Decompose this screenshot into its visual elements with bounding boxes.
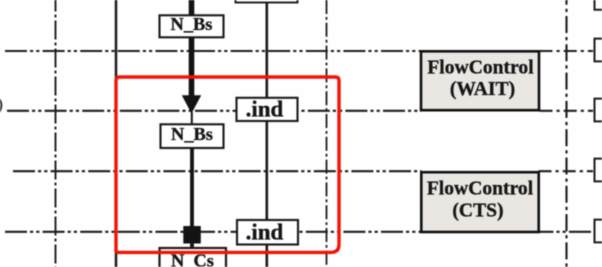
svg-text:(CTS): (CTS) (452, 200, 503, 221)
svg-text:FlowControl: FlowControl (427, 179, 534, 200)
right edge bracket (cut box) at y=170 (595, 159, 602, 182)
label box N_Bs (upper) (160, 15, 224, 37)
thick message line (upper segment) x=191.5 (189, 0, 195, 96)
right edge bracket (cut box) at y=-1 (595, 0, 602, 10)
svg-text:N_Bs: N_Bs (171, 124, 213, 144)
right edge bracket (cut box) at y=231 (595, 220, 602, 243)
horizontal dash-dot net line y=170 (13, 170, 422, 172)
right edge bracket (cut box) at y=51 (595, 39, 602, 62)
FlowControl (WAIT) frame box (421, 51, 539, 110)
cut-off parenthesis glyph at left edge (0, 99, 1, 113)
vertical dash-dot boundary line x=55 (55, 0, 57, 267)
FlowControl (CTS) frame box (421, 172, 538, 232)
vertical dash-dot boundary line x=326 (326, 0, 328, 267)
left lifeline (thin solid) x=116 (115, 0, 118, 267)
thin connector below arrowhead (191, 112, 193, 126)
svg-text:N_Bs: N_Bs (171, 14, 213, 34)
message line lower segment (190, 241, 194, 249)
right edge bracket (cut box) at y=110 (595, 99, 602, 122)
vertical dash-dot boundary line x=565 (565, 0, 567, 267)
junction square node (183, 226, 201, 244)
horizontal dash-dot net line y=110 (7, 110, 421, 112)
label box N_Bs (lower) (161, 124, 224, 148)
svg-text:(WAIT): (WAIT) (450, 79, 515, 100)
svg-text:.ind: .ind (246, 97, 284, 122)
label box .ind (lower) (237, 220, 298, 245)
arrowhead pointing down (182, 95, 201, 113)
cut-off box at top of middle lifeline (236, 0, 298, 3)
svg-text:FlowControl: FlowControl (427, 58, 534, 79)
horizontal dash-dot net line y=231 (5, 231, 593, 233)
horizontal dash-dot net line y=51 (5, 50, 421, 52)
label box N_Cs (bottom, cut off) (160, 248, 227, 267)
message line middle segment (190, 147, 194, 227)
middle lifeline (thin solid) x=267 (265, 0, 268, 267)
svg-text:.ind: .ind (246, 219, 284, 244)
red highlight rectangle overlay (116, 77, 339, 252)
label box .ind (upper) (237, 98, 298, 121)
